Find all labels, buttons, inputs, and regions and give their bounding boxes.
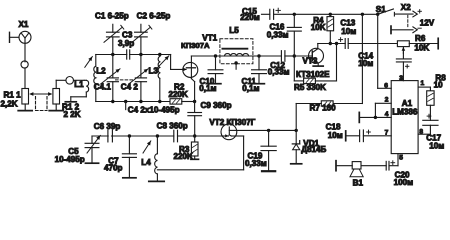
pin 7 bypass [363, 135, 391, 137]
pin 4 ground [359, 116, 391, 118]
coax connector on antenna lead [21, 61, 28, 68]
node source/R2 [193, 100, 196, 103]
capacitor C16 [293, 14, 295, 27]
node C10 [214, 54, 217, 57]
resistor R7 [333, 103, 363, 105]
svg-text:R7 160: R7 160 [310, 104, 337, 113]
node R5 top [335, 42, 338, 45]
wire rail to R7 [361, 14, 363, 103]
core arrow of L4 [143, 141, 151, 153]
pin 2 ground [375, 102, 391, 104]
svg-text:7: 7 [385, 130, 389, 137]
svg-text:C9 360p: C9 360p [201, 101, 232, 110]
node R4 bottom [329, 42, 332, 45]
svg-text:R6: R6 [415, 34, 426, 43]
line to C5 C6 [92, 135, 108, 137]
wire R7 to VD1 node [295, 104, 297, 131]
wire L1 to ground [85, 92, 87, 97]
coil L1 [84, 79, 86, 81]
svg-text:0,33м: 0,33м [268, 67, 290, 76]
svg-text:C4 2x10-495p: C4 2x10-495p [128, 105, 180, 114]
node C7 [128, 134, 131, 137]
node L4 [156, 134, 159, 137]
capacitor C18 [359, 130, 361, 142]
svg-text:10м: 10м [328, 131, 343, 140]
ground for L4 [149, 180, 164, 182]
wire X1 to connector [24, 43, 26, 62]
op-amp A1 LM386 [391, 81, 418, 154]
ground for R3 [191, 158, 199, 160]
svg-text:Д814Б: Д814Б [301, 145, 326, 154]
svg-text:R5 330K: R5 330K [294, 83, 326, 92]
capacitor C9 [188, 112, 202, 114]
wire C9 to gate node [194, 116, 196, 136]
resistor R1.2 [53, 89, 60, 105]
tank bottom rail left [96, 101, 170, 103]
node VD1 [295, 129, 298, 132]
ground for VD1 [291, 163, 302, 165]
svg-text:C6 39p: C6 39p [94, 122, 121, 131]
svg-text:L4: L4 [141, 158, 151, 167]
svg-text:B1: B1 [353, 179, 364, 188]
svg-text:8: 8 [419, 128, 423, 135]
wire C8 to gate node [178, 135, 195, 137]
svg-text:КТ3102Е: КТ3102Е [296, 70, 330, 79]
svg-text:VT2 КП307Г: VT2 КП307Г [209, 118, 255, 127]
tank2 top rail [130, 54, 171, 56]
svg-text:470p: 470p [104, 163, 123, 172]
svg-text:10: 10 [434, 81, 444, 90]
svg-text:1: 1 [421, 80, 425, 87]
ground for C19 [262, 170, 275, 172]
line C6 to C8 [112, 135, 174, 137]
capacitor C11 [258, 56, 260, 70]
variable capacitor C4.1 [112, 55, 114, 78]
ground pins 2-4 [358, 112, 360, 122]
node rail R7 feed [361, 13, 364, 16]
svg-text:C4.1: C4.1 [94, 82, 112, 91]
node gang label tick [124, 100, 127, 103]
svg-text:12V: 12V [420, 18, 435, 27]
wire R1.2 top to L1 [55, 80, 57, 88]
variable capacitor C4.2 [140, 55, 142, 78]
ground for C18 [345, 131, 347, 141]
core arrow of L2 [85, 57, 93, 68]
svg-text:100м: 100м [394, 178, 414, 187]
capacitor C12 [280, 51, 282, 62]
node rail S1 [376, 13, 379, 16]
capacitor C17 [423, 119, 438, 121]
svg-text:220K: 220K [169, 90, 189, 99]
resistor R5 [293, 56, 295, 81]
screen ground stub [234, 61, 237, 64]
wire R1.2 to ground [55, 104, 57, 110]
coil L4 [156, 136, 158, 154]
svg-text:5: 5 [399, 154, 403, 161]
antenna connector X1 [9, 32, 11, 42]
capacitor C7 [128, 136, 130, 154]
node rail C16 [293, 13, 296, 16]
svg-text:3: 3 [399, 75, 403, 82]
capacitor C14 [402, 52, 404, 59]
wire C2 to tank rail [140, 37, 142, 55]
wire VT2 source down [243, 136, 245, 170]
svg-text:C8 360p: C8 360p [157, 122, 188, 131]
transistor VT3 [309, 48, 324, 63]
svg-text:10м: 10м [358, 59, 373, 68]
svg-text:4: 4 [385, 111, 389, 118]
wiper R6 [402, 48, 404, 54]
gang dashed link C4 [116, 79, 135, 81]
potentiometer R6 [397, 41, 409, 47]
svg-text:X1: X1 [19, 20, 29, 29]
transistor VT1 [183, 62, 198, 77]
supply rail [274, 13, 378, 15]
source return to L4 tap [157, 169, 243, 171]
ground for R1.2 [49, 110, 63, 112]
svg-text:0,1м: 0,1м [199, 84, 216, 93]
zener diode VD1 [295, 130, 297, 144]
wiper link R1.1-R1.2 [31, 93, 52, 95]
svg-text:3,9p: 3,9p [118, 39, 134, 48]
connector X2 tie [407, 15, 409, 28]
coil L2 [95, 55, 97, 67]
svg-text:C2 6-25p: C2 6-25p [137, 12, 171, 21]
svg-text:10м: 10м [341, 27, 356, 36]
resistor R2 [170, 99, 182, 104]
svg-text:C13: C13 [340, 18, 355, 27]
node C4.2 bottom [139, 100, 142, 103]
svg-text:2 2K: 2 2K [64, 110, 81, 119]
tank1 top rail [96, 54, 127, 56]
svg-text:R1 1: R1 1 [4, 91, 22, 100]
variable capacitor C5 [91, 136, 93, 143]
gate drop tank2 to VT1 [170, 55, 172, 70]
wire R1.1 to ground [24, 104, 26, 110]
svg-text:X2: X2 [401, 3, 411, 12]
ground for C11 [254, 83, 265, 85]
svg-text:10K: 10K [311, 23, 326, 32]
core arrow of L3 [157, 56, 169, 69]
wire C12 to base node [285, 55, 294, 57]
node C1/tank1 [111, 53, 114, 56]
svg-text:220м: 220м [240, 13, 260, 22]
svg-text:0,33м: 0,33м [245, 159, 267, 168]
terminal R6 end [437, 38, 439, 48]
wire connector to R1.1 [24, 68, 26, 89]
transistor VT2 [221, 124, 237, 140]
capacitor C10 [215, 56, 217, 70]
connector X2 minus half [390, 26, 392, 33]
svg-text:6: 6 [384, 83, 388, 90]
node C11 [257, 54, 260, 57]
main drain line [191, 55, 281, 57]
svg-text:2,2K: 2,2K [1, 99, 18, 108]
svg-text:10м: 10м [429, 142, 444, 151]
ground for L1 [65, 101, 76, 103]
ground for C7 [123, 177, 136, 179]
node C4.1 bottom [111, 100, 114, 103]
svg-text:10-495p: 10-495p [55, 155, 85, 164]
svg-text:2: 2 [385, 97, 389, 104]
connector X2 plus half [395, 13, 413, 15]
ground for R1.1 [18, 110, 32, 112]
audio line collector [318, 43, 345, 45]
wire R2 to VT1 source [182, 101, 195, 103]
capacitor C20 [385, 161, 387, 170]
svg-text:L2: L2 [96, 67, 106, 76]
resistor R8 [429, 87, 431, 91]
loudspeaker B1 [352, 162, 361, 169]
pin 6 supply [377, 14, 379, 88]
resistor R4 [329, 14, 331, 16]
ground for C10 [210, 83, 221, 85]
coil L3 [159, 55, 161, 57]
pin 3 [402, 79, 404, 82]
node VT3 base [293, 54, 296, 57]
svg-text:L5: L5 [229, 26, 239, 35]
inline jack on L1 lead [66, 77, 74, 85]
choke L5 in screen [224, 54, 248, 56]
svg-text:VT3: VT3 [303, 56, 318, 65]
ground for B1 [335, 161, 337, 171]
wire VT1 source down [191, 79, 194, 82]
drain line VT2 [237, 129, 297, 131]
resistor R3 [194, 136, 196, 142]
svg-text:A1: A1 [402, 99, 413, 108]
svg-text:КП307А: КП307А [181, 41, 210, 50]
svg-text:0,1м: 0,1м [242, 84, 259, 93]
node C2/tank2 [139, 53, 142, 56]
resistor R1.1 [22, 89, 29, 105]
ground for C5 [85, 162, 98, 164]
wire jack to L1 [74, 79, 85, 81]
node L3 bottom [158, 100, 161, 103]
gate line VT2 [195, 135, 222, 137]
node rail R4 [329, 13, 332, 16]
svg-text:0,33м: 0,33м [267, 30, 289, 39]
capacitor C19 [268, 130, 270, 146]
node C19 [267, 129, 270, 132]
node gate/R3/C9 [193, 134, 196, 137]
wire C1 to tank rail [112, 37, 114, 55]
svg-text:10K: 10K [414, 43, 429, 52]
svg-text:C1 6-25p: C1 6-25p [95, 12, 129, 21]
node L3/tank2 [158, 53, 161, 56]
pin 5 output [397, 154, 399, 166]
ground VT3 emitter [313, 65, 323, 67]
svg-text:L1: L1 [74, 80, 84, 89]
svg-text:C4 2: C4 2 [121, 82, 139, 91]
svg-text:LM386: LM386 [392, 108, 418, 117]
pin 1 gain [418, 86, 430, 88]
